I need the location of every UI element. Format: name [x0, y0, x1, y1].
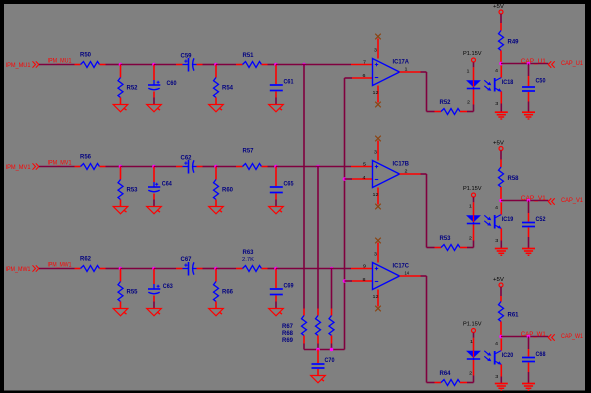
- svg-text:2: 2: [469, 370, 473, 375]
- wire node C to R51: [216, 64, 243, 66]
- junction bus C70: [316, 348, 320, 352]
- svg-text:C61: C61: [284, 80, 295, 86]
- svg-text:1: 1: [467, 68, 471, 73]
- capacitor C52: [522, 201, 546, 249]
- wire row3 to IC17C +input: [276, 268, 373, 270]
- svg-text:C67: C67: [181, 257, 193, 263]
- node BU junction: [152, 63, 156, 67]
- net label IPM_MV1: [48, 161, 73, 167]
- svg-text:IPM_MW1: IPM_MW1: [6, 267, 32, 273]
- wire IPM_MV1 to R56: [39, 166, 75, 168]
- opto transistor IC20: [495, 351, 514, 365]
- svg-text:R69: R69: [282, 338, 294, 344]
- capacitor C67: [181, 257, 203, 275]
- junction bus R69: [330, 348, 334, 352]
- svg-text:+5V: +5V: [493, 277, 504, 283]
- wire output to R52: [421, 72, 435, 112]
- wire to node CV: [203, 166, 217, 168]
- wire to LED cathode: [467, 225, 474, 248]
- opto LED IC18: [467, 81, 480, 90]
- svg-text:R53: R53: [127, 188, 139, 194]
- opto LED IC19: [467, 216, 480, 225]
- svg-text:CAP_U1: CAP_U1: [521, 59, 547, 65]
- svg-text:8: 8: [363, 277, 367, 282]
- wire node CAP_W1: [501, 336, 548, 338]
- svg-text:3: 3: [374, 48, 378, 53]
- node E-U junction (R67 tap): [302, 63, 306, 67]
- svg-text:R67: R67: [282, 324, 294, 330]
- ground: [209, 207, 224, 214]
- opto arrows: [484, 80, 491, 91]
- svg-text:R53: R53: [440, 236, 452, 242]
- svg-text:4: 4: [363, 175, 367, 180]
- power pin 12: [373, 86, 380, 103]
- node CAP_V1 junction: [499, 199, 503, 203]
- IC17C output pin: [400, 275, 421, 277]
- comparator IC17A: [373, 59, 410, 86]
- resistor R69: [329, 309, 334, 350]
- svg-text:6: 6: [363, 73, 367, 78]
- resistor R61: [499, 287, 520, 337]
- svg-text:IC20: IC20: [502, 353, 514, 359]
- wire to node AU: [106, 64, 121, 66]
- capacitor C69: [270, 269, 294, 309]
- power port P1.15V: [463, 186, 482, 197]
- wire node A to node B: [121, 268, 155, 270]
- resistor R53: [118, 167, 138, 207]
- port IPM_MW1: [6, 265, 39, 273]
- pin 1 label: [470, 339, 474, 344]
- svg-text:IPM_MU1: IPM_MU1: [6, 63, 32, 69]
- svg-text:2: 2: [467, 99, 471, 104]
- net label CAP_V1: [521, 196, 547, 202]
- svg-text:R56: R56: [80, 155, 92, 161]
- svg-text:C62: C62: [181, 155, 193, 161]
- svg-text:CAP_V1: CAP_V1: [561, 198, 584, 204]
- svg-text:CAP_V1: CAP_V1: [521, 196, 547, 202]
- resistor R53: [435, 236, 468, 251]
- svg-text:IC18: IC18: [502, 80, 514, 86]
- capacitor C70: [312, 350, 336, 376]
- port IPM_MV1: [6, 163, 39, 171]
- opto arrows: [484, 215, 491, 226]
- svg-text:R57: R57: [243, 149, 255, 155]
- node BW junction: [152, 267, 156, 271]
- svg-text:C50: C50: [536, 78, 547, 84]
- svg-text:IPM_MV1: IPM_MV1: [6, 165, 32, 171]
- svg-text:C69: C69: [284, 284, 295, 290]
- wire P1.15V to LED: [473, 197, 475, 215]
- emitter pin: [500, 365, 502, 384]
- svg-text:C52: C52: [536, 217, 547, 223]
- node AU junction: [119, 63, 123, 67]
- comparator IC17B: [373, 161, 410, 188]
- node F-V junction: [343, 177, 347, 181]
- svg-text:R68: R68: [282, 331, 294, 337]
- wire node CAP_V1: [501, 200, 548, 202]
- ground: [147, 105, 162, 112]
- emitter pin: [500, 92, 502, 113]
- ground: [495, 384, 508, 391]
- svg-text:IC17A: IC17A: [393, 60, 410, 66]
- pin 4 label: [495, 205, 499, 210]
- capacitor C59: [181, 53, 203, 71]
- svg-text:4: 4: [495, 205, 499, 210]
- svg-text:R52: R52: [127, 86, 139, 92]
- pin 6 label: [363, 73, 367, 78]
- svg-text:2: 2: [405, 169, 409, 174]
- wire node A to node B: [121, 166, 155, 168]
- wire node E-V down to R68: [317, 167, 319, 309]
- wire to node AV: [106, 166, 121, 168]
- resistor R49: [499, 14, 520, 64]
- pin 4 label: [495, 68, 499, 73]
- pin 7 label: [363, 59, 367, 64]
- port IPM_MU1: [6, 61, 39, 69]
- svg-text:5: 5: [363, 161, 367, 166]
- wire P1.15V to LED: [473, 62, 475, 80]
- capacitor C63: [148, 269, 173, 309]
- capacitor C65: [270, 167, 294, 207]
- svg-text:R62: R62: [80, 257, 92, 263]
- svg-text:P1.15V: P1.15V: [463, 186, 482, 192]
- resistor R67: [302, 309, 307, 350]
- wire to node CU: [203, 64, 217, 66]
- pin 1 label: [469, 203, 473, 208]
- wire output to R64: [421, 276, 435, 383]
- pin 2 label: [405, 169, 409, 174]
- svg-text:R66: R66: [222, 290, 234, 296]
- svg-text:R51: R51: [243, 53, 255, 59]
- power port P1.15V: [463, 322, 482, 333]
- resistor R62: [75, 257, 106, 272]
- svg-text:4: 4: [495, 341, 499, 346]
- pin 3 label: [495, 374, 499, 379]
- resistor R54: [214, 65, 234, 105]
- svg-text:2.7K: 2.7K: [242, 257, 254, 263]
- svg-text:C63: C63: [163, 284, 174, 290]
- pin 2 label: [469, 370, 473, 375]
- ground: [269, 105, 284, 112]
- wire row1 main: [276, 64, 304, 66]
- svg-text:+5V: +5V: [493, 4, 504, 10]
- resistor R58: [499, 151, 520, 201]
- junction cap: [527, 199, 531, 203]
- svg-text:12: 12: [373, 90, 380, 95]
- ground: [113, 105, 128, 112]
- svg-text:C70: C70: [325, 358, 336, 364]
- resistor R63: [242, 250, 268, 272]
- svg-text:2: 2: [469, 235, 473, 240]
- ground: [269, 207, 284, 214]
- port CAP_V1: [548, 198, 583, 205]
- node BV junction: [152, 165, 156, 169]
- wire IPM_MW1 to R62: [39, 268, 75, 270]
- ground: [495, 249, 508, 256]
- svg-text:R61: R61: [508, 313, 520, 319]
- capacitor C64: [148, 167, 172, 207]
- pin 4 label: [363, 175, 367, 180]
- ground: [113, 207, 128, 214]
- node DV junction: [274, 165, 278, 169]
- label R69: [282, 338, 294, 344]
- svg-text:+5V: +5V: [493, 141, 504, 147]
- no-connect bottom: [375, 102, 381, 108]
- capacitor C62: [181, 155, 203, 173]
- svg-text:3: 3: [374, 150, 378, 155]
- svg-text:4: 4: [495, 68, 499, 73]
- svg-text:CAP_W1: CAP_W1: [521, 332, 547, 338]
- svg-text:IPM_MU1: IPM_MU1: [48, 59, 73, 65]
- svg-text:C68: C68: [536, 352, 547, 358]
- resistor R68: [316, 309, 321, 350]
- wire node B to C59: [154, 64, 183, 66]
- svg-text:7: 7: [363, 59, 367, 64]
- resistor R51: [243, 53, 268, 68]
- resistor R55: [118, 269, 138, 309]
- ground: [522, 384, 535, 391]
- resistor R52: [435, 100, 468, 115]
- svg-text:R64: R64: [440, 371, 452, 377]
- wire to node CW: [203, 268, 217, 270]
- svg-text:C64: C64: [162, 182, 173, 188]
- wire node C to R63: [216, 268, 243, 270]
- pin 3 label: [495, 101, 499, 106]
- svg-text:12: 12: [373, 294, 380, 299]
- IC17A output pin: [400, 71, 421, 73]
- wire to node DW: [268, 268, 277, 270]
- comparator IC17C: [373, 263, 410, 290]
- wire IPM_MU1 to R50: [39, 64, 75, 66]
- no-connect top: [375, 238, 381, 244]
- power port +5V: [493, 141, 504, 151]
- node AW junction: [119, 267, 123, 271]
- power pin 3: [374, 243, 378, 263]
- node CU junction: [214, 63, 218, 67]
- resistor R57: [243, 149, 268, 170]
- ground: [311, 376, 326, 383]
- resistor R56: [75, 155, 106, 170]
- svg-text:1: 1: [470, 339, 474, 344]
- wire to node DU: [268, 64, 277, 66]
- ground: [495, 112, 508, 119]
- power pin 12: [373, 188, 380, 205]
- svg-text:CAP_U1: CAP_U1: [561, 61, 584, 67]
- ground: [522, 249, 535, 256]
- ground: [522, 112, 535, 119]
- opto arrows: [484, 351, 491, 362]
- svg-text:IC19: IC19: [502, 217, 514, 223]
- svg-text:R63: R63: [243, 250, 255, 256]
- node E-W junction (R69 tap): [330, 267, 334, 271]
- emitter pin: [500, 229, 502, 249]
- power port +5V: [493, 277, 504, 287]
- wire node CAP_U1: [501, 63, 548, 65]
- pin 3 label: [495, 238, 499, 243]
- net label IPM_MU1: [48, 59, 73, 65]
- svg-text:3: 3: [495, 374, 499, 379]
- wire row2 to IC17B +input: [276, 166, 373, 168]
- svg-text:P1.15V: P1.15V: [463, 322, 482, 328]
- node DW junction: [274, 267, 278, 271]
- junction cap: [527, 62, 531, 66]
- net label CAP_W1: [521, 332, 547, 338]
- resistor R60: [214, 167, 234, 207]
- junction cap: [527, 335, 531, 339]
- resistor R52: [118, 65, 138, 105]
- pin 1 label: [405, 67, 409, 72]
- net label CAP_U1: [521, 59, 547, 65]
- resistor R64: [435, 371, 468, 386]
- node CW junction: [214, 267, 218, 271]
- capacitor C60: [148, 65, 177, 105]
- svg-text:1: 1: [469, 203, 473, 208]
- svg-text:9: 9: [363, 263, 367, 268]
- port CAP_W1: [548, 334, 583, 341]
- pin 2 label: [469, 235, 473, 240]
- opto LED IC20: [467, 351, 480, 360]
- no-connect top: [375, 34, 381, 40]
- svg-text:1: 1: [405, 67, 409, 72]
- node CAP_U1 junction: [499, 62, 503, 66]
- pin 2 label: [467, 99, 471, 104]
- pin 9 label: [363, 263, 367, 268]
- svg-text:IC17B: IC17B: [393, 162, 410, 168]
- power pin 3: [374, 141, 378, 161]
- wire IC17B -input: [345, 178, 373, 180]
- resistor R50: [75, 53, 106, 68]
- svg-text:14: 14: [405, 271, 410, 276]
- no-connect top: [375, 136, 381, 142]
- wire node A to node B: [121, 64, 155, 66]
- wire P1.15V to LED: [473, 333, 475, 351]
- power pin 3: [374, 39, 378, 59]
- wire node B to C67: [154, 268, 183, 270]
- pin 14 label: [405, 271, 410, 276]
- svg-text:R58: R58: [508, 176, 520, 182]
- wire output to R53: [421, 174, 435, 248]
- wire IC17C -input: [345, 280, 373, 282]
- svg-text:R52: R52: [440, 100, 452, 106]
- no-connect bottom: [375, 306, 381, 312]
- net label IPM_MW1: [48, 263, 73, 269]
- svg-text:IC17C: IC17C: [393, 264, 410, 270]
- wire node E-W down to R69: [331, 269, 333, 309]
- wire to LED cathode: [467, 360, 474, 383]
- capacitor C61: [270, 65, 294, 105]
- label R68: [282, 331, 294, 337]
- port CAP_U1: [548, 61, 583, 68]
- pin 5 label: [363, 161, 367, 166]
- wire bottom bus: [304, 349, 345, 351]
- node E-V junction (R68 tap): [316, 165, 320, 169]
- wire to LED cathode: [467, 90, 474, 112]
- svg-text:R60: R60: [222, 188, 234, 194]
- svg-text:R49: R49: [508, 40, 520, 46]
- power port P1.15V: [463, 51, 482, 62]
- capacitor C68: [522, 337, 546, 384]
- resistor R66: [214, 269, 234, 309]
- svg-text:IPM_MV1: IPM_MV1: [48, 161, 73, 167]
- wire node C to R57: [216, 166, 243, 168]
- capacitor C50: [522, 64, 546, 113]
- svg-text:3: 3: [374, 252, 378, 257]
- power pin 12: [373, 290, 380, 307]
- pin 1 label: [467, 68, 471, 73]
- collector pin: [500, 338, 502, 350]
- wire to node DV: [268, 166, 277, 168]
- no-connect bottom: [375, 204, 381, 210]
- wire to node AW: [106, 268, 121, 270]
- opto transistor IC18: [495, 78, 514, 92]
- wire row1 to IC17A +input: [304, 64, 373, 66]
- node CV junction: [214, 165, 218, 169]
- ground: [269, 309, 284, 316]
- node CAP_W1 junction: [499, 335, 503, 339]
- ground: [113, 309, 128, 316]
- node DU junction: [274, 63, 278, 67]
- svg-text:R54: R54: [222, 86, 234, 92]
- svg-text:CAP_W1: CAP_W1: [561, 334, 584, 340]
- node AV junction: [119, 165, 123, 169]
- svg-text:R55: R55: [127, 290, 139, 296]
- ground: [147, 309, 162, 316]
- power port +5V: [493, 4, 504, 14]
- opto transistor IC19: [495, 215, 514, 229]
- pin 8 label: [363, 277, 367, 282]
- wire feedback vertical: [344, 78, 346, 350]
- svg-text:R50: R50: [80, 53, 92, 59]
- ground: [209, 309, 224, 316]
- wire node B to C62: [154, 166, 183, 168]
- wire node E-U down to R67: [303, 65, 305, 309]
- svg-text:C59: C59: [181, 53, 193, 59]
- wire IC17A -input: [345, 77, 373, 79]
- collector pin: [500, 202, 502, 214]
- collector pin: [500, 65, 502, 77]
- svg-text:C65: C65: [284, 182, 295, 188]
- ground: [209, 105, 224, 112]
- pin 4 label: [495, 341, 499, 346]
- svg-text:12: 12: [373, 192, 380, 197]
- svg-text:C60: C60: [167, 81, 178, 87]
- svg-text:P1.15V: P1.15V: [463, 51, 482, 57]
- svg-text:IPM_MW1: IPM_MW1: [48, 263, 73, 269]
- IC17B output pin: [400, 173, 421, 175]
- ground: [147, 207, 162, 214]
- svg-text:3: 3: [495, 101, 499, 106]
- svg-text:3: 3: [495, 238, 499, 243]
- node F-W junction: [343, 279, 347, 283]
- label R67: [282, 324, 294, 330]
